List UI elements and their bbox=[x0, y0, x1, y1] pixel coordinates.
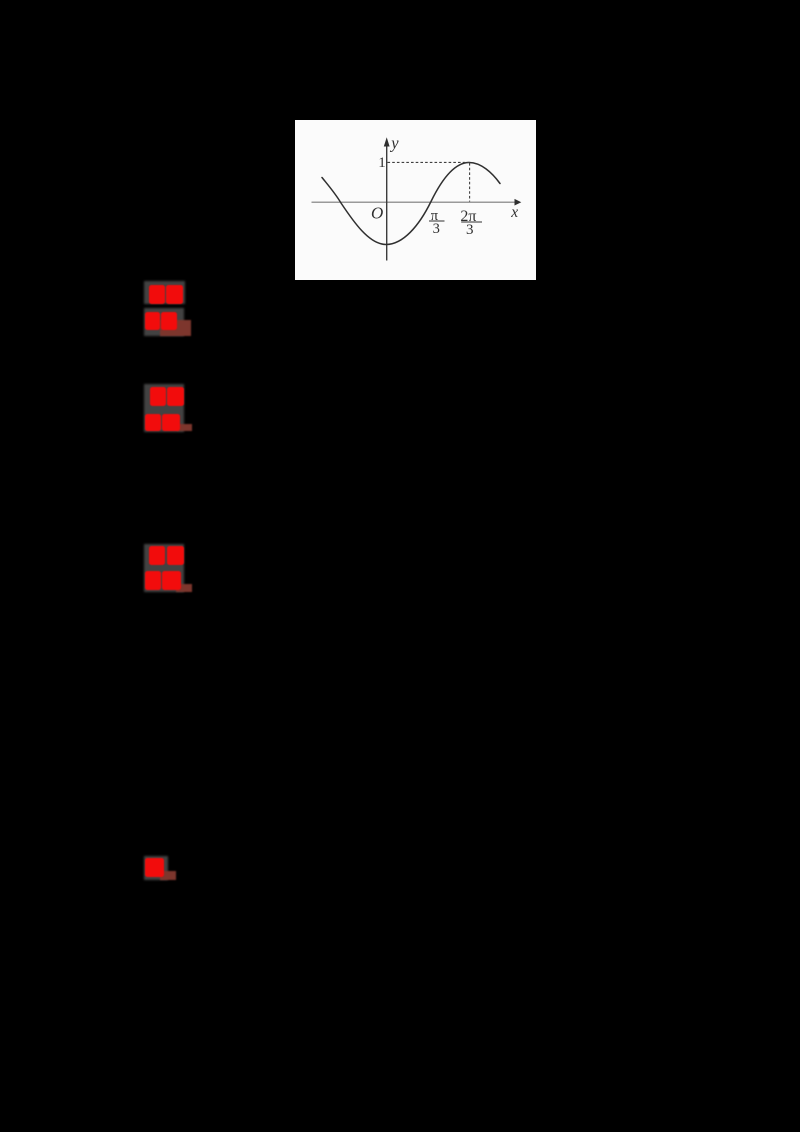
svg-text:3: 3 bbox=[433, 221, 440, 237]
dashed line y=1 bbox=[388, 161, 470, 163]
dashed vertical at 2pi/3 bbox=[469, 163, 471, 202]
svg-text:1: 1 bbox=[378, 155, 386, 171]
svg-text:3: 3 bbox=[466, 222, 474, 238]
x axis line bbox=[312, 201, 516, 203]
x axis arrowhead bbox=[515, 199, 522, 206]
y axis arrowhead bbox=[384, 137, 390, 146]
red mark block 2 bbox=[144, 384, 184, 432]
svg-text:y: y bbox=[389, 134, 399, 153]
figure box: function graph image bbox=[295, 120, 536, 280]
sine curve bbox=[322, 163, 500, 245]
red mark block 4 bbox=[144, 856, 168, 880]
svg-text:x: x bbox=[510, 204, 518, 221]
red mark block 1 (answer stamp) bbox=[144, 281, 185, 304]
red mark block 3 bbox=[144, 544, 184, 592]
svg-text:O: O bbox=[371, 204, 383, 223]
y axis line bbox=[386, 144, 388, 261]
